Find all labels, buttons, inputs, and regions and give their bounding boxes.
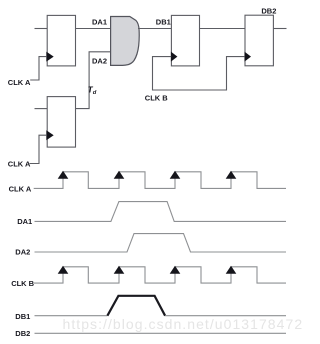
DB1 waveform pulse xyxy=(107,296,165,316)
wire U2 Q output up to AND gate (net DA2) xyxy=(76,52,111,109)
CLK B rising edge arrow 4 xyxy=(226,266,237,274)
U1 D input wire xyxy=(35,28,48,30)
svg-text:DB1: DB1 xyxy=(156,17,171,26)
U3 clock edge arrow xyxy=(171,52,178,62)
svg-text:CLK A: CLK A xyxy=(8,160,31,169)
svg-text:DB2: DB2 xyxy=(261,7,276,16)
flip-flop U3 (first CLK B stage) xyxy=(171,15,199,66)
svg-text:CLK B: CLK B xyxy=(11,279,34,288)
U1 clock edge arrow xyxy=(46,52,53,62)
CLK A rising edge arrow 2 xyxy=(114,171,125,179)
DB1 waveform low segment left xyxy=(35,315,108,317)
flip-flop U4 (second CLK B stage) xyxy=(245,15,273,66)
wire U3 Q output to U4 D input (net DB2) xyxy=(200,28,246,30)
svg-text:CLK A: CLK A xyxy=(8,78,31,87)
flip-flop U1 (first CLK A stage) xyxy=(47,15,75,66)
DB2 waveform xyxy=(35,332,287,334)
svg-text:CLK A: CLK A xyxy=(9,184,32,193)
CLK B net wire xyxy=(153,57,245,90)
svg-text:https://blog.csdn.net/u0131784: https://blog.csdn.net/u013178472 xyxy=(63,316,304,332)
CLK B waveform xyxy=(34,267,286,283)
CLK A waveform xyxy=(34,172,286,189)
DB1 waveform low segment right xyxy=(165,315,286,317)
CLK A rising edge arrow 1 xyxy=(58,171,69,179)
CLK A wire to U1 clock xyxy=(30,57,47,80)
svg-text:Td: Td xyxy=(88,85,97,96)
U4 Q output wire xyxy=(273,28,286,30)
CLK B rising edge arrow 2 xyxy=(114,266,125,274)
svg-text:DB1: DB1 xyxy=(15,312,30,321)
wire U1 Q output to AND gate (net DA1) xyxy=(76,28,112,30)
AND gate G1 xyxy=(111,17,140,66)
CLK B rising edge arrow 1 xyxy=(58,266,69,274)
DA1 waveform xyxy=(35,202,287,222)
svg-text:DB2: DB2 xyxy=(15,329,30,338)
flip-flop U2 (second CLK A stage) xyxy=(47,97,75,148)
U4 clock edge arrow xyxy=(245,52,252,62)
CLK A rising edge arrow 3 xyxy=(170,171,181,179)
svg-text:CLK B: CLK B xyxy=(145,93,168,102)
CLK A rising edge arrow 4 xyxy=(226,171,237,179)
svg-text:DA2: DA2 xyxy=(92,57,107,66)
svg-text:DA1: DA1 xyxy=(17,217,32,226)
wire G1 output to U3 D input (net DB1) xyxy=(138,28,171,30)
U2 clock edge arrow xyxy=(46,130,53,140)
CLK B rising edge arrow 3 xyxy=(170,266,181,274)
DA2 waveform xyxy=(35,234,287,252)
svg-text:DA1: DA1 xyxy=(92,17,107,26)
CLK A wire to U2 clock xyxy=(30,135,47,163)
svg-text:DA2: DA2 xyxy=(15,247,30,256)
U2 D input wire xyxy=(35,108,48,110)
